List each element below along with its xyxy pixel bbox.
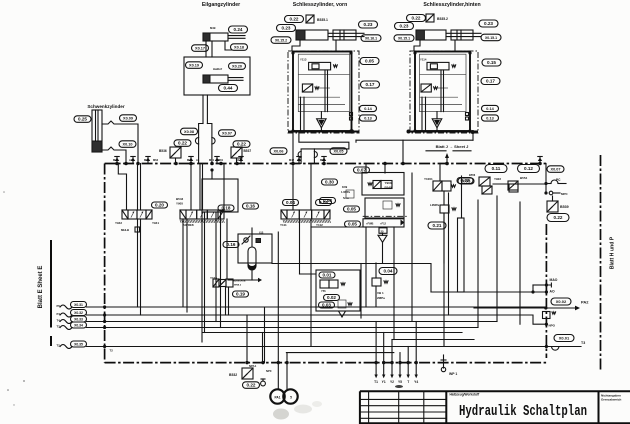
oval X0.19: [186, 62, 203, 69]
oval 0.12: [518, 165, 540, 173]
wire row P0 to PA2: [87, 306, 547, 308]
svg-text:Y5: Y5: [398, 380, 402, 384]
smudge under Y5: [395, 385, 403, 388]
oval 0.22 vorn: [285, 16, 304, 23]
connector PA2 arrow: [474, 307, 575, 309]
box hinten bottom heavy: [410, 131, 478, 133]
svg-text:0.14: 0.14: [364, 107, 372, 111]
svg-text:X0.06: X0.06: [274, 150, 284, 154]
wire B543 drop lines: [182, 219, 184, 306]
svg-text:M42: M42: [289, 158, 295, 162]
oval 0.22 hinten: [407, 15, 426, 22]
wire Eilgang neck: [205, 41, 207, 57]
oval X0.09: [120, 115, 137, 122]
svg-text:0.13: 0.13: [364, 117, 371, 121]
svg-text:0.01: 0.01: [323, 273, 332, 278]
svg-text:Eilgangzylinder: Eilgangzylinder: [202, 2, 240, 8]
funnel side bumps: [195, 138, 198, 144]
filter hinten: [432, 119, 442, 128]
svg-text:Halbzeug/Werkstoff: Halbzeug/Werkstoff: [450, 393, 481, 397]
svg-text:X0.08: X0.08: [184, 130, 194, 134]
svg-text:Blatt J → Sheet J: Blatt J → Sheet J: [436, 144, 469, 149]
svg-text:25: 25: [381, 229, 385, 233]
oval X0.06: [270, 148, 287, 155]
box under Y905: [202, 179, 238, 212]
svg-text:Y114: Y114: [420, 58, 427, 62]
oval 0.23 vorn-left: [277, 25, 296, 32]
svg-text:0.22: 0.22: [247, 383, 256, 388]
corner marks hinten: [413, 51, 416, 54]
left vertical dash-dot: [104, 164, 106, 363]
oval 0.04 mid: [379, 268, 397, 275]
pump 2: [283, 389, 297, 403]
svg-text:M81: M81: [218, 158, 224, 162]
svg-text:X0.35: X0.35: [74, 343, 83, 347]
svg-text:X0.09: X0.09: [123, 117, 133, 121]
svg-text:MAO: MAO: [550, 278, 558, 282]
svg-text:0.13: 0.13: [486, 117, 493, 121]
svg-text:Y4: Y4: [414, 380, 418, 384]
wire Y111 drop to cluster: [299, 219, 301, 274]
valve VB1: [372, 278, 381, 286]
svg-text:Y905: Y905: [176, 202, 183, 206]
oval X0.01 right: [554, 335, 574, 342]
svg-text:X0.32: X0.32: [74, 311, 83, 315]
svg-text:X0.07: X0.07: [551, 168, 561, 172]
wire accumulator: [251, 228, 253, 247]
svg-text:Y1: Y1: [382, 380, 386, 384]
accumulator: [248, 247, 256, 270]
svg-text:+F12: +F12: [380, 222, 387, 226]
svg-text:M63: M63: [153, 158, 159, 162]
arrows T1 Y1 Y2 Y5 T Y4: [375, 363, 377, 375]
svg-text:5: 5: [290, 396, 292, 400]
svg-text:B539: B539: [560, 205, 569, 209]
oval 0.24: [229, 26, 248, 33]
svg-text:0.23: 0.23: [484, 21, 493, 26]
svg-text:0.05: 0.05: [365, 59, 374, 64]
svg-text:Y922: Y922: [494, 177, 501, 181]
svg-text:T3: T3: [581, 341, 585, 345]
valve Y111 Y112: [281, 210, 330, 219]
oval 0.05 small: [316, 200, 332, 206]
svg-text:Schliesszylinder,hinten: Schliesszylinder,hinten: [423, 2, 480, 8]
svg-text:MPC: MPC: [561, 192, 569, 196]
svg-text:0.05: 0.05: [347, 207, 356, 212]
svg-text:Schliesszylinder, vorn: Schliesszylinder, vorn: [293, 2, 348, 8]
wire vorn meander: [299, 132, 349, 164]
wire B554 to PC: [493, 183, 546, 185]
svg-text:Y111: Y111: [280, 223, 287, 227]
svg-text:M49: M49: [210, 26, 216, 30]
svg-text:Y56: Y56: [321, 289, 326, 293]
filter vorn: [317, 119, 327, 128]
oval 0.02 small2: [324, 295, 340, 301]
svg-text:2MPa: 2MPa: [377, 296, 385, 300]
oval 0.23 hinten-left: [395, 23, 414, 30]
oval 0.18 small: [218, 205, 234, 211]
svg-text:0.14: 0.14: [486, 107, 494, 111]
valve in cluster: [320, 280, 329, 288]
svg-text:X0.20: X0.20: [232, 65, 242, 69]
svg-text:0.19: 0.19: [236, 292, 245, 297]
valve Y105: [213, 279, 219, 287]
box left cluster: [316, 270, 360, 311]
svg-text:Grenzabweich: Grenzabweich: [601, 398, 622, 402]
ports vorn: [350, 113, 353, 116]
title block outer: [360, 390, 630, 392]
svg-text:M73: M73: [144, 158, 150, 162]
svg-text:0.17: 0.17: [366, 82, 375, 87]
svg-text:X0.15.1: X0.15.1: [398, 37, 410, 41]
svg-text:0.05: 0.05: [348, 222, 357, 227]
svg-text:0.20: 0.20: [155, 203, 164, 208]
svg-text:WP 1: WP 1: [449, 372, 457, 376]
svg-text:ANTRIEB: ANTRIEB: [183, 224, 194, 227]
svg-text:0.16: 0.16: [227, 242, 236, 247]
oval X0.16.1: [361, 35, 381, 42]
bus junction dots: [115, 162, 119, 166]
svg-text:Hydraulik Schaltplan: Hydraulik Schaltplan: [459, 404, 587, 420]
oval 0.23 hinten-right: [479, 20, 498, 27]
hatch under Y111: [283, 220, 331, 223]
dark element in accumulator box: [256, 239, 261, 243]
check valves on bus: [115, 157, 119, 164]
oval X0.15.1 right: [481, 34, 501, 41]
wire row T4: [87, 321, 498, 323]
svg-text:X0.07: X0.07: [222, 132, 232, 136]
wire vorn cyl to box: [292, 40, 300, 51]
wire bus to Y111: [292, 164, 294, 211]
oval 0.05 small3: [344, 206, 360, 212]
valve2 hinten: [421, 84, 431, 92]
svg-text:NP0: NP0: [266, 369, 272, 373]
svg-text:X0.01: X0.01: [559, 336, 570, 341]
oval X0.20: [229, 63, 246, 70]
box vorn inner: [298, 54, 349, 111]
margin specks: [7, 389, 9, 391]
oval X0.08: [181, 128, 198, 135]
svg-text:0.24: 0.24: [234, 27, 243, 32]
pressure switch B535.1: [306, 15, 314, 23]
svg-text:B543: B543: [176, 197, 184, 201]
svg-text:0.12: 0.12: [524, 166, 533, 171]
wire Schwenk B: [102, 147, 126, 164]
svg-text:0.25: 0.25: [78, 117, 87, 122]
box hinten inner: [420, 54, 467, 111]
oval 0.05 under Y112: [345, 221, 361, 227]
oval 0.03 under 0.11: [458, 178, 474, 184]
wire row P4: [87, 315, 547, 324]
oval X0.10: [119, 141, 136, 148]
svg-text:Y1001: Y1001: [424, 177, 433, 181]
svg-text:X0.05: X0.05: [334, 150, 344, 154]
wire Y105: [226, 219, 228, 279]
wire bus to Y905: [190, 164, 192, 211]
svg-text:T1: T1: [374, 380, 378, 384]
svg-text:Haltbrf: Haltbrf: [213, 67, 222, 71]
svg-text:PA2: PA2: [581, 300, 589, 305]
cylinder Schwenk: [92, 110, 102, 152]
oval 0.22 right: [547, 214, 569, 222]
oval 0.22 B532: [243, 382, 260, 389]
oval 0.21: [428, 222, 446, 229]
hose bump 2: [314, 152, 317, 158]
svg-text:NPO: NPO: [549, 324, 556, 328]
svg-text:T2: T2: [110, 349, 114, 353]
svg-text:PC: PC: [556, 178, 561, 182]
oval 0.22 B536: [174, 140, 191, 147]
svg-text:+FWB: +FWB: [366, 222, 374, 226]
wire bus to Y942: [137, 164, 139, 211]
svg-text:X0.33: X0.33: [74, 318, 83, 322]
bus bottom dash-dot: [105, 362, 547, 364]
wire bus to Y1001: [439, 164, 441, 182]
pipe column: [458, 218, 465, 292]
svg-text:L2MPa: L2MPa: [430, 203, 439, 207]
oval 0.13 hinten: [482, 115, 499, 121]
svg-text:X0.19: X0.19: [189, 64, 199, 68]
oval 0.03 small: [319, 302, 335, 308]
oval 0.44: [219, 85, 238, 92]
oval 0.17 vorn: [361, 81, 380, 88]
svg-text:0.44: 0.44: [224, 86, 233, 91]
wire Y942 drops: [137, 219, 139, 307]
svg-text:X0.02: X0.02: [556, 299, 567, 304]
svg-text:X0.16.1: X0.16.1: [365, 37, 377, 41]
wire vorn meander 2: [313, 149, 315, 164]
svg-text:0.04: 0.04: [384, 269, 393, 274]
shelf lines vorn: [298, 74, 349, 76]
svg-text:B554: B554: [520, 176, 528, 180]
wire PC branch: [544, 182, 547, 185]
svg-text:WKB.2: WKB.2: [234, 285, 242, 287]
oval 0.01 small: [319, 272, 335, 278]
corner blob vorn: [350, 129, 354, 133]
svg-text:M41: M41: [187, 158, 193, 162]
wire Schwenk A: [102, 121, 138, 164]
oval X0.05: [330, 148, 347, 155]
oval 0.30 small: [322, 179, 338, 185]
wire hinten cyl to box: [414, 40, 420, 51]
wire bus to pumps: [277, 363, 279, 389]
svg-text:0.23: 0.23: [400, 24, 409, 29]
gauge small circle: [261, 381, 266, 386]
svg-text:Y113: Y113: [300, 58, 307, 62]
pipes vorn interior: [300, 97, 302, 131]
svg-text:Blatt H und P: Blatt H und P: [610, 236, 616, 269]
svg-text:PA1: PA1: [275, 396, 281, 400]
svg-text:T: T: [407, 380, 409, 384]
svg-text:0.07: 0.07: [357, 168, 366, 173]
svg-text:0.04: 0.04: [286, 200, 295, 205]
oval 0.16 mid: [223, 242, 239, 248]
far right dash-dot: [600, 155, 602, 370]
oval X0.17: [192, 45, 209, 52]
box hinten dashed: [410, 51, 478, 133]
box vorn bottom heavy: [288, 131, 359, 133]
svg-text:Schwenkzylinder: Schwenkzylinder: [87, 104, 124, 109]
oval 0.08 small: [320, 198, 336, 204]
wire right drops: [365, 227, 367, 307]
svg-text:X.B: X.B: [259, 231, 263, 235]
svg-text:Blatt E Sheet E: Blatt E Sheet E: [38, 266, 44, 309]
box Y903: [362, 173, 404, 196]
cylinder Eilgang lower: [203, 75, 243, 83]
svg-text:K09: K09: [342, 185, 348, 189]
wire right drops 2: [477, 200, 479, 328]
box vorn dashed: [288, 51, 359, 133]
oval 0.04 small: [283, 200, 299, 206]
cylinder Eilgang upper: [203, 33, 245, 41]
svg-text:0.08: 0.08: [323, 198, 332, 203]
svg-text:B535.2: B535.2: [437, 17, 448, 21]
svg-text:M82: M82: [320, 158, 326, 162]
svg-text:M71: M71: [209, 158, 215, 162]
oval 0.16 small: [243, 203, 259, 209]
oval 0.23 vorn-right: [359, 21, 378, 28]
oval 0.14 hinten: [482, 105, 499, 111]
wire MPC branch: [545, 184, 547, 194]
oval 0.15 hinten: [482, 59, 501, 66]
pipes hinten mid: [440, 70, 442, 112]
svg-text:X0.18: X0.18: [234, 46, 244, 50]
svg-text:X0.15.2: X0.15.2: [275, 39, 287, 43]
pipes hinten interior: [421, 97, 423, 131]
svg-text:X0.17: X0.17: [195, 47, 205, 51]
svg-text:0.22: 0.22: [290, 17, 299, 22]
relief NPO: [543, 312, 551, 319]
svg-text:B532: B532: [229, 373, 237, 377]
shelf lines hinten: [420, 74, 467, 76]
oval X0.18: [231, 44, 248, 51]
svg-text:B536: B536: [159, 149, 167, 153]
wire bus to Y903 box: [365, 164, 367, 174]
svg-text:0.22: 0.22: [554, 215, 563, 220]
svg-text:0.16: 0.16: [246, 204, 255, 209]
svg-text:NPA1: NPA1: [249, 364, 257, 368]
wire rows extra segments: [203, 332, 462, 334]
svg-text:0.02: 0.02: [327, 295, 336, 300]
check valve ball: [244, 238, 248, 242]
svg-text:0.17: 0.17: [486, 79, 495, 84]
svg-text:0.21: 0.21: [433, 223, 442, 228]
svg-text:0.23: 0.23: [282, 26, 291, 31]
oval 0.17 hinten: [481, 78, 500, 85]
oval X0.07: [219, 130, 236, 137]
valve2 vorn: [302, 84, 312, 92]
wire Eilgang down neck: [202, 95, 204, 124]
pressure switch B535.2: [426, 14, 434, 22]
oval X0.15.2: [271, 37, 291, 44]
oval 0.14 vorn: [360, 105, 377, 111]
cylinder vorn: [296, 30, 364, 40]
svg-text:0.15: 0.15: [487, 60, 496, 65]
svg-text:Y903: Y903: [385, 181, 392, 185]
oval X0.07 right: [547, 166, 564, 173]
svg-text:0.30: 0.30: [325, 180, 334, 185]
pressure switch B536: [170, 147, 181, 158]
oval 0.11: [485, 165, 507, 173]
pipes vorn mid: [324, 70, 326, 112]
svg-text:X0.15.1: X0.15.1: [485, 36, 497, 40]
right inner dash-dot: [545, 224, 547, 358]
sheet E boundary: [50, 240, 52, 328]
title block right cell: [598, 391, 600, 424]
wire drops to bottom bus: [246, 315, 248, 363]
oval X0.02 right: [551, 298, 571, 305]
oval 0.25: [74, 116, 91, 123]
oval 0.02 small: [457, 178, 473, 184]
svg-text:B537: B537: [244, 149, 252, 153]
wire vorn box to bus: [292, 132, 294, 164]
svg-text:Y112: Y112: [316, 223, 323, 227]
oval 0.19 small: [233, 291, 249, 297]
box vorn heavy: [293, 52, 352, 132]
svg-text:AO: AO: [550, 290, 555, 294]
valve FWB: [363, 219, 404, 227]
cylinder hinten: [416, 30, 481, 40]
connector AO: [431, 291, 546, 293]
wire Y112 to FWB: [311, 226, 362, 228]
svg-text:A1: A1: [196, 158, 200, 162]
oval 0.13 vorn: [360, 115, 377, 121]
svg-text:MHLB: MHLB: [121, 228, 129, 232]
corner marks vorn: [291, 51, 294, 54]
box Eilgang lower: [184, 57, 250, 95]
oval 0.20 small: [152, 202, 168, 208]
wire row T3a: [87, 327, 479, 329]
ports hinten: [466, 113, 469, 116]
svg-text:0.22: 0.22: [412, 16, 421, 21]
valve Y903 B540: [368, 183, 372, 185]
svg-text:0.23: 0.23: [364, 22, 373, 27]
bus main dash-dot: [105, 163, 547, 165]
valve B554: [508, 181, 518, 190]
smudge below pumps: [273, 409, 289, 420]
pressure switch B532: [242, 368, 253, 379]
pressure switch B539: [547, 201, 558, 212]
title block grid: [360, 398, 446, 400]
oval 0.05 vorn: [360, 58, 379, 65]
svg-text:B535.1: B535.1: [317, 18, 328, 22]
svg-text:B556: B556: [469, 173, 476, 177]
wire Eilgang funnel legs: [199, 124, 203, 164]
svg-text:0.22: 0.22: [178, 141, 187, 146]
wire hinten box corner: [356, 139, 473, 141]
svg-text:X0.31: X0.31: [74, 303, 83, 307]
svg-text:0.11: 0.11: [492, 166, 501, 171]
hatch under Y905: [180, 220, 224, 223]
svg-text:Y2: Y2: [390, 380, 394, 384]
box accumulator: [238, 234, 272, 263]
bottom junction dots: [245, 361, 248, 364]
relief in cluster: [338, 300, 346, 308]
svg-text:A2: A2: [297, 158, 301, 162]
pump PA1: [270, 389, 284, 403]
connector MAO: [533, 284, 546, 286]
wire row T2 to T3: [87, 346, 582, 348]
svg-text:A3: A3: [129, 158, 133, 162]
arrow to Blatt J: [446, 157, 448, 164]
svg-text:M43: M43: [113, 158, 119, 162]
oval X0.15.1: [394, 35, 414, 42]
svg-text:X0.34: X0.34: [74, 324, 83, 328]
oval 0.07 small2: [354, 167, 370, 173]
box under Y903: [365, 198, 404, 218]
svg-text:VB 1: VB 1: [377, 291, 384, 295]
svg-text:Y942: Y942: [115, 221, 122, 225]
